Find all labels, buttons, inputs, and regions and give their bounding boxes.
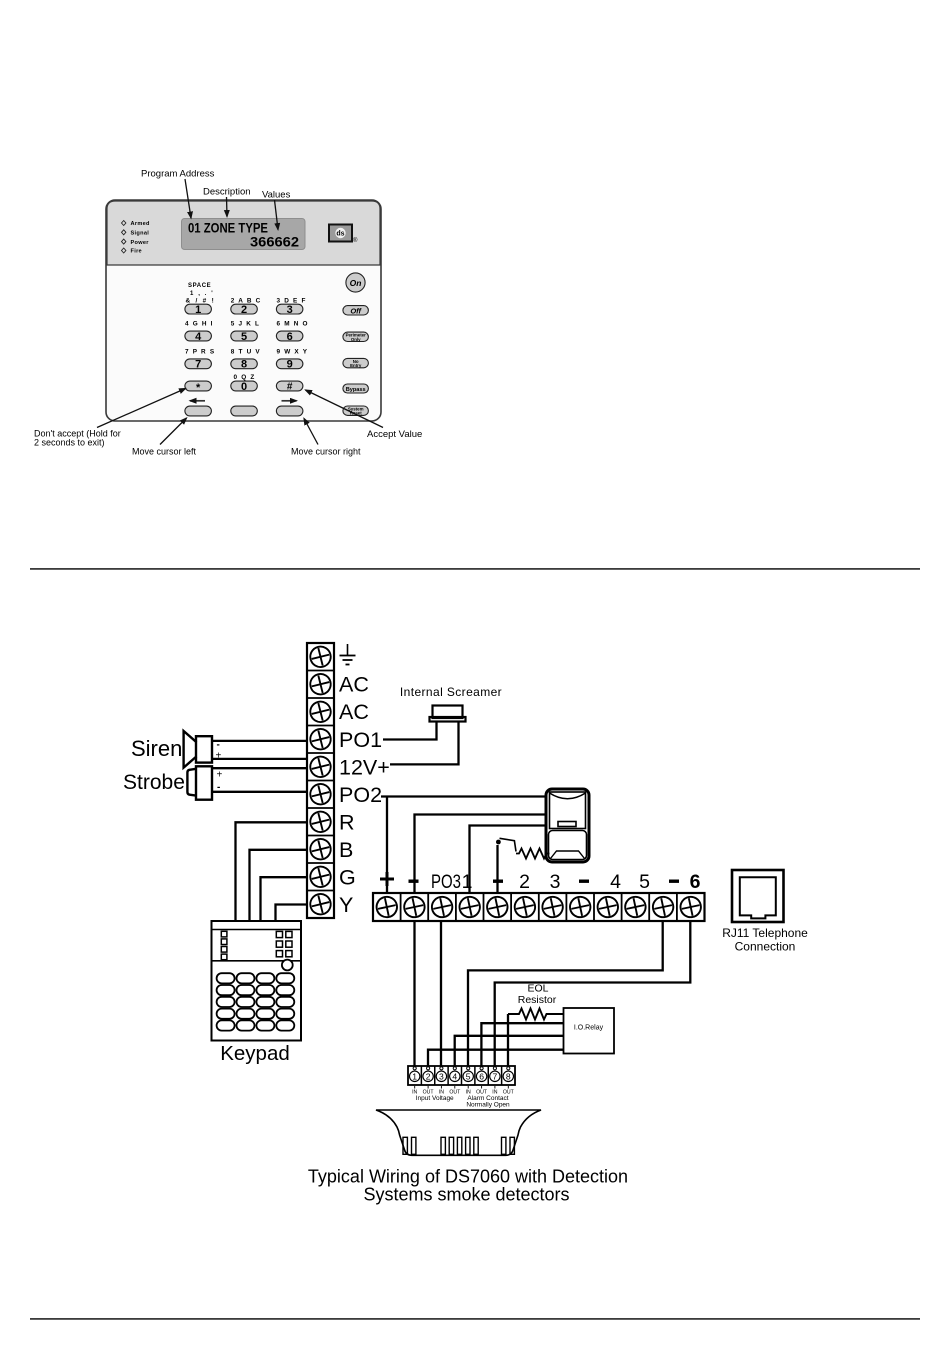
vertical terminal strip (panel) xyxy=(307,643,334,918)
svg-text:Strobe: Strobe xyxy=(123,771,185,794)
screw terminal 12V+ xyxy=(308,754,333,779)
screw terminal AC1 xyxy=(308,672,333,697)
screw terminal - xyxy=(485,895,509,919)
siren speaker symbol xyxy=(184,731,212,768)
svg-text:Siren: Siren xyxy=(131,736,182,761)
arrow Values to LCD xyxy=(275,200,279,230)
screw terminal R xyxy=(308,809,333,834)
key 8 with label 8 T U V xyxy=(231,348,261,370)
keypad display band xyxy=(107,201,380,265)
LED indicator Fire xyxy=(122,248,142,255)
svg-text:Fire: Fire xyxy=(131,249,142,255)
svg-text:5: 5 xyxy=(241,331,247,343)
wire terminal - up to detector xyxy=(415,815,548,894)
svg-text:AC: AC xyxy=(339,673,369,697)
screw terminal PO3 xyxy=(430,895,454,919)
keypad panel body xyxy=(106,200,381,421)
smoke terminal 6 xyxy=(476,1067,486,1082)
arrow Dont accept to key * xyxy=(97,389,186,428)
horizontal divider rule (bottom) xyxy=(30,1318,920,1320)
strobe lamp symbol xyxy=(187,766,212,799)
screw terminal B xyxy=(308,837,333,862)
screw terminal - xyxy=(402,895,426,919)
blank key bottom-left xyxy=(185,406,212,416)
screw terminal Y xyxy=(308,892,333,917)
svg-text:Systems smoke detectors: Systems smoke detectors xyxy=(363,1185,569,1205)
strip label - xyxy=(493,880,503,883)
svg-text:Entry: Entry xyxy=(350,363,362,368)
keypad buttons xyxy=(217,973,295,1030)
screw terminal GND xyxy=(308,644,333,669)
wire terminal 1 up to detector xyxy=(470,826,548,894)
svg-text:Resistor: Resistor xyxy=(518,994,557,1006)
wire - down to smoke 1 xyxy=(413,921,415,1066)
button On xyxy=(346,273,365,292)
EOL resistor xyxy=(508,1009,564,1020)
svg-text:Values: Values xyxy=(262,190,291,201)
key 1 with labels SPACE / 1,.' / &amp;/#! xyxy=(185,283,216,316)
screw terminal 6 xyxy=(679,895,703,919)
wire PO3 down to smoke 3 xyxy=(440,921,442,1066)
smoke terminal 1 xyxy=(410,1067,420,1082)
wire terminal - up to tamper switch xyxy=(496,845,498,893)
arrow Accept Value to key # xyxy=(306,390,384,428)
screw terminal PO2 xyxy=(308,782,333,807)
svg-text:5: 5 xyxy=(639,871,650,893)
PIR motion detector xyxy=(546,789,589,862)
svg-text:4: 4 xyxy=(610,871,621,893)
svg-text:7 P R S: 7 P R S xyxy=(185,348,215,355)
wire - down to smoke 5 xyxy=(468,921,663,1066)
wire PO2 junction down to + terminal xyxy=(386,797,388,894)
svg-text:3: 3 xyxy=(550,871,561,893)
svg-text:Move cursor left: Move cursor left xyxy=(132,447,197,457)
wire strobe - to PO2 xyxy=(212,791,307,793)
svg-text:Input Voltage: Input Voltage xyxy=(416,1095,454,1102)
button Off xyxy=(343,306,369,316)
svg-text:01 ZONE TYPE: 01 ZONE TYPE xyxy=(188,221,268,236)
smoke detector body xyxy=(376,1110,541,1155)
svg-text:2: 2 xyxy=(519,871,530,893)
screw terminal 5 xyxy=(623,895,647,919)
wire smoke 4 to relay xyxy=(455,1036,564,1066)
key 6 with label 6 M N O xyxy=(276,321,308,343)
svg-text:4: 4 xyxy=(195,331,202,343)
button No Entry xyxy=(343,358,369,368)
wire Y to keypad xyxy=(276,905,307,922)
LCD display xyxy=(182,219,306,250)
wire smoke 2 to relay xyxy=(428,1050,564,1066)
button Perimeter Only xyxy=(343,332,369,342)
LED indicator Armed xyxy=(122,221,151,228)
svg-text:1: 1 xyxy=(412,1072,417,1082)
key 7 with label 7 P R S xyxy=(185,348,215,370)
button System Reset xyxy=(343,406,369,416)
LED indicator Signal xyxy=(122,230,150,237)
wire R to keypad xyxy=(236,822,307,921)
smoke terminal 4 xyxy=(450,1067,460,1082)
svg-text:9 W X Y: 9 W X Y xyxy=(277,348,309,355)
svg-text:Bypass: Bypass xyxy=(346,387,366,393)
DS logo xyxy=(329,225,352,242)
strip label - xyxy=(409,880,419,883)
key * xyxy=(185,381,212,394)
I.O. relay box xyxy=(564,1008,615,1054)
earth ground symbol xyxy=(340,644,356,665)
svg-text:+: + xyxy=(217,770,223,781)
key 3 with label 3 D E F xyxy=(276,298,306,316)
svg-text:5 J K L: 5 J K L xyxy=(231,321,260,328)
cursor right arrow glyph xyxy=(282,400,297,402)
svg-text:B: B xyxy=(339,838,353,862)
tamper switch contact dot xyxy=(496,840,501,845)
internal screamer symbol xyxy=(430,706,466,722)
arrow Move cursor left xyxy=(160,418,187,445)
svg-text:5: 5 xyxy=(466,1072,471,1082)
wire strobe + to 12V+ xyxy=(212,767,307,769)
screw terminal AC2 xyxy=(308,699,333,724)
svg-text:0: 0 xyxy=(241,381,247,393)
screw terminal 3 xyxy=(541,895,565,919)
wire 12V+ to screamer xyxy=(390,722,459,764)
svg-text:Move cursor right: Move cursor right xyxy=(291,447,361,457)
screw terminal + xyxy=(375,895,399,919)
svg-text:Signal: Signal xyxy=(131,231,150,237)
screw terminal 1 xyxy=(458,895,482,919)
wire siren - to PO1 xyxy=(212,740,307,742)
svg-text:R: R xyxy=(339,811,355,835)
key 0 with label 0 Q Z xyxy=(231,374,257,393)
RJ11 telephone jack xyxy=(732,870,784,922)
svg-text:On: On xyxy=(350,278,362,288)
svg-text:G: G xyxy=(339,866,356,890)
svg-text:®: ® xyxy=(353,237,358,244)
svg-text:I.O.Relay: I.O.Relay xyxy=(574,1025,604,1032)
strip label - xyxy=(579,880,589,883)
tamper switch blade xyxy=(500,838,517,851)
svg-text:12V+: 12V+ xyxy=(339,756,390,780)
smoke detector vent slots xyxy=(403,1137,514,1154)
button Bypass xyxy=(343,384,369,393)
svg-text:2: 2 xyxy=(426,1072,431,1082)
horizontal divider rule (top) xyxy=(30,568,920,570)
svg-text:SPACE: SPACE xyxy=(188,283,211,289)
svg-text:Normally Open: Normally Open xyxy=(466,1102,510,1109)
screw terminal 4 xyxy=(596,895,620,919)
wire siren + to 12V+ xyxy=(212,758,307,760)
svg-text:3: 3 xyxy=(439,1072,444,1082)
svg-text:6 M N O: 6 M N O xyxy=(277,321,309,328)
svg-text:PO3: PO3 xyxy=(431,871,461,893)
svg-text:Y: Y xyxy=(339,893,353,917)
svg-text:1: 1 xyxy=(462,871,473,893)
svg-text:9: 9 xyxy=(287,359,293,371)
svg-text:Typical Wiring of DS7060 with: Typical Wiring of DS7060 with Detection xyxy=(308,1167,628,1187)
cursor left arrow glyph xyxy=(190,400,205,402)
svg-text:366662: 366662 xyxy=(250,235,299,250)
svg-text:7: 7 xyxy=(493,1072,498,1082)
key # xyxy=(276,381,303,392)
svg-text:*: * xyxy=(196,382,201,394)
svg-text:2: 2 xyxy=(241,304,247,316)
svg-text:Off: Off xyxy=(350,306,362,315)
wire smoke 6 to relay xyxy=(481,1023,563,1066)
screw terminal 2 xyxy=(513,895,537,919)
LED indicator Power xyxy=(122,239,150,246)
smoke terminal 7 xyxy=(490,1067,500,1082)
arrow Move cursor right xyxy=(304,419,318,445)
svg-text:Armed: Armed xyxy=(131,221,151,227)
svg-text:RJ11 Telephone: RJ11 Telephone xyxy=(722,926,808,940)
smoke terminal 5 xyxy=(463,1067,473,1082)
svg-text:PO2: PO2 xyxy=(339,783,382,807)
wire G to keypad xyxy=(261,877,307,921)
svg-text:Connection: Connection xyxy=(735,940,796,954)
screw terminal - xyxy=(651,895,675,919)
svg-text:8: 8 xyxy=(506,1072,511,1082)
svg-text:4 G H I: 4 G H I xyxy=(185,321,214,328)
wire PO1 to screamer xyxy=(383,722,437,740)
svg-text:8: 8 xyxy=(241,359,247,371)
svg-text:EOL: EOL xyxy=(527,983,548,995)
svg-text:Keypad: Keypad xyxy=(220,1042,290,1065)
strip label - xyxy=(669,880,679,883)
svg-text:PO1: PO1 xyxy=(339,728,382,752)
smoke detector terminal strip xyxy=(408,1066,515,1085)
horizontal terminal strip (zone terminals) xyxy=(373,893,705,921)
arrow Description to LCD xyxy=(226,197,229,217)
screw terminal PO1 xyxy=(308,727,333,752)
key 4 with label 4 G H I xyxy=(185,321,214,343)
strip label + xyxy=(380,872,394,886)
key 9 with label 9 W X Y xyxy=(276,348,308,370)
svg-text:6: 6 xyxy=(690,871,701,893)
arrow Program Address to LCD xyxy=(185,179,191,218)
svg-text:4: 4 xyxy=(452,1072,457,1082)
key 5 with label 5 J K L xyxy=(231,321,260,343)
screw terminal - xyxy=(568,895,592,919)
blank key bottom-middle xyxy=(231,406,257,416)
svg-text:Only: Only xyxy=(351,337,361,342)
svg-text:Program Address: Program Address xyxy=(141,169,215,180)
keypad indicator squares right xyxy=(276,931,292,956)
svg-text:Internal Screamer: Internal Screamer xyxy=(400,685,502,699)
svg-text:Description: Description xyxy=(203,187,251,198)
svg-text:2 seconds to exit): 2 seconds to exit) xyxy=(34,438,105,448)
svg-text:6: 6 xyxy=(287,331,293,343)
smoke terminal 8 xyxy=(503,1067,513,1082)
wire 6 down to smoke 7 xyxy=(495,921,691,1066)
svg-text:0 Q Z: 0 Q Z xyxy=(234,374,256,381)
svg-text:1 , . ': 1 , . ' xyxy=(190,291,214,297)
keypad indicator squares left xyxy=(221,931,227,959)
svg-text:1: 1 xyxy=(195,304,201,316)
labels IN/OUT xyxy=(415,1086,509,1089)
EOL resistor at detector xyxy=(516,849,550,859)
wire PO2 to detector xyxy=(381,795,547,797)
svg-text:7: 7 xyxy=(195,359,201,371)
svg-text:#: # xyxy=(287,382,293,393)
svg-text:6: 6 xyxy=(479,1072,484,1082)
svg-text:Accept Value: Accept Value xyxy=(367,429,422,440)
svg-text:Power: Power xyxy=(131,240,150,246)
screw terminal G xyxy=(308,864,333,889)
svg-text:AC: AC xyxy=(339,700,369,724)
svg-text:3: 3 xyxy=(287,304,293,316)
svg-text:ds: ds xyxy=(336,231,344,238)
wire smoke 8 to EOL resistor xyxy=(507,1014,509,1066)
blank key bottom-right xyxy=(276,406,303,416)
key 2 with label 2 A B C xyxy=(231,298,262,316)
svg-text:8 T U V: 8 T U V xyxy=(231,348,261,355)
smoke terminal 3 xyxy=(436,1067,446,1082)
smoke terminal 2 xyxy=(423,1067,433,1082)
keypad knob circle xyxy=(282,960,293,971)
wire B to keypad xyxy=(250,850,307,921)
keypad (wiring) body xyxy=(212,921,302,1041)
